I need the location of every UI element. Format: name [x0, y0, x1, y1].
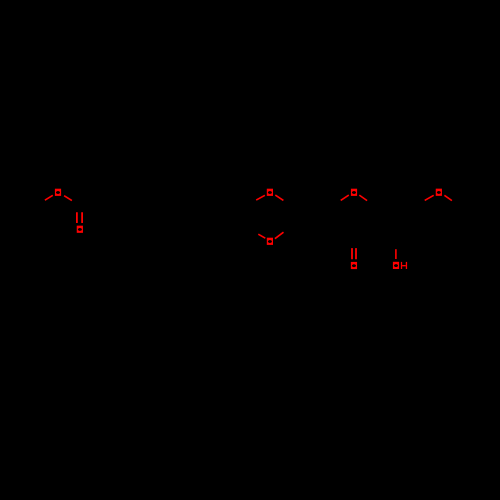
wire: chain C4-C5 [122, 192, 143, 205]
wire: xanthone C9=O double bond (oxygen halves, red) [352, 248, 356, 259]
wire: dioxine O4 half-bond to ring C [275, 232, 284, 239]
wire: chain C5-C6 [143, 192, 164, 205]
wire: chain C9 to dioxine C2 [228, 192, 248, 204]
wire: methyl C1 to ester O half-bond (carbon half) [37, 200, 45, 205]
wire: chain C7-C8 [185, 192, 206, 205]
wire: xanthone C9=O double bond (carbon halves) [352, 242, 356, 248]
wire: middle benzene ring [290, 192, 333, 241]
wire: right benzene inner double bonds [379, 196, 414, 238]
wire: ester O-C2 half-bond (oxygen half) [64, 196, 72, 201]
wire: dioxine O4 half-bond to CH2 [258, 234, 265, 238]
node O (xanthone carbonyl oxygen) [351, 262, 357, 269]
node O (dioxine O4) [267, 238, 273, 245]
wire: ester C2=O double bond (oxygen halves, red) [77, 212, 356, 259]
node O (pyran oxygen) [351, 189, 357, 196]
wire: right benzene ring [375, 192, 418, 241]
wire: dioxine O1 half-bond to ring C [275, 195, 283, 200]
wire: ester C2=O double bond (carbon halves) [77, 206, 82, 212]
wire: dioxine CH2-CH2 [247, 205, 249, 230]
node H (phenol OH hydrogen) [401, 262, 407, 269]
wire: ester O-CH3 half-bond (oxygen half) [45, 195, 53, 200]
node O (ester carbonyl oxygen) [77, 226, 83, 233]
wire: chain C2-C3 [79, 192, 100, 205]
wire: chain C3-C4 [100, 192, 121, 205]
wire: pyran O carbon halves [333, 200, 376, 205]
node O (ester ether oxygen) [55, 189, 61, 196]
wire: pyran O half-bond left [341, 195, 349, 200]
wire: chain C6-C7 [164, 192, 185, 205]
wire: dioxine O4 carbon halves [248, 229, 290, 234]
wire: pyran O half-bond right [359, 195, 367, 201]
wire: phenol C-OH half-bond (carbon half) [395, 241, 397, 249]
wire: ethoxy O half-bond to CH2 [444, 195, 452, 200]
wire: dioxine O1 half-bond to CH2 [256, 195, 265, 200]
wire: dioxine O1 carbon halves [248, 200, 290, 205]
wire: central pyranone ring [333, 205, 376, 242]
wire: ethoxy O carbon halves [418, 200, 461, 205]
node O (dioxine O1) [267, 189, 273, 196]
node O (phenol OH oxygen) [393, 262, 399, 269]
wire: ester O to carbonyl C2 half-bond (carbon half) [71, 200, 79, 205]
wire: middle benzene inner double bonds [294, 196, 329, 238]
node O (ethoxy oxygen) [436, 189, 442, 196]
wire: chain C8-C9 [207, 192, 228, 205]
wire: ethyl CH2-CH3 [460, 192, 481, 204]
wire: ethoxy O half-bond to ring C [425, 195, 434, 200]
wire: phenol O-H bond (oxygen half) [395, 249, 397, 259]
